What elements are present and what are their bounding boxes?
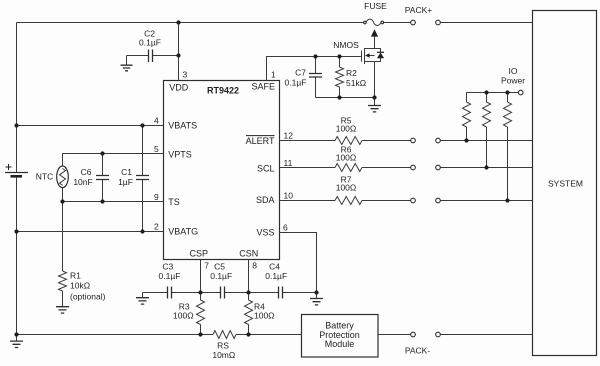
wire top rail PACK+ [17, 22, 533, 24]
wire NMOS source rail [316, 97, 375, 99]
resistor pullup 3 [507, 93, 509, 201]
svg-text:SYSTEM: SYSTEM [548, 178, 583, 188]
svg-text:NMOS: NMOS [333, 40, 359, 50]
svg-text:C6: C6 [81, 167, 92, 177]
svg-text:0.1µF: 0.1µF [285, 78, 307, 88]
svg-text:CSP: CSP [190, 249, 209, 259]
node SCL connector [411, 165, 416, 170]
svg-text:VDD: VDD [169, 82, 189, 92]
resistor R4 [248, 293, 250, 335]
svg-text:10: 10 [284, 190, 294, 200]
wire filter cap row [143, 292, 317, 294]
capacitor C7 [315, 57, 317, 98]
wire IO power rail [467, 92, 519, 94]
svg-text:RS: RS [217, 340, 229, 350]
svg-text:IO: IO [509, 66, 518, 76]
capacitor C1 [142, 126, 144, 232]
capacitor C6 [102, 154, 104, 202]
resistor R7 [335, 197, 362, 205]
svg-text:7: 7 [204, 260, 209, 270]
svg-text:51kΩ: 51kΩ [346, 78, 366, 88]
svg-text:SDA: SDA [256, 195, 275, 205]
svg-text:100Ω: 100Ω [254, 311, 275, 321]
capacitor C3 [168, 287, 172, 299]
svg-text:1: 1 [271, 70, 276, 80]
svg-text:PACK-: PACK- [405, 346, 431, 356]
svg-text:4: 4 [154, 115, 159, 125]
wire CSN pin8 stub [248, 260, 250, 293]
svg-text:VBATS: VBATS [168, 121, 197, 131]
ground battery rail [16, 335, 18, 341]
node ALERT connector [411, 138, 416, 143]
node IO power terminal [518, 90, 523, 95]
svg-text:3: 3 [183, 70, 188, 80]
svg-text:CSN: CSN [239, 249, 258, 259]
svg-text:ALERT: ALERT [246, 136, 275, 146]
node SDA connector [411, 198, 416, 203]
wire VBATS pin4 [17, 125, 164, 127]
svg-text:VPTS: VPTS [168, 149, 192, 159]
svg-text:12: 12 [284, 131, 294, 141]
resistor RS shunt [213, 331, 236, 339]
resistor pullup 2 [486, 93, 488, 168]
svg-text:100Ω: 100Ω [336, 152, 357, 162]
wire SDA pin10 row [280, 200, 533, 202]
svg-text:(optional): (optional) [70, 292, 106, 302]
svg-text:0.1µF: 0.1µF [159, 271, 181, 281]
resistor R6 [335, 164, 362, 172]
ground for R1 [56, 307, 69, 313]
svg-text:100Ω: 100Ω [173, 311, 194, 321]
capacitor C5 [221, 287, 225, 299]
svg-text:C7: C7 [295, 68, 306, 78]
svg-text:Module: Module [325, 339, 355, 349]
wire TS pin9 [63, 201, 164, 203]
svg-text:100Ω: 100Ω [336, 124, 357, 134]
wire VBATG pin2 [17, 231, 164, 233]
svg-text:5: 5 [154, 144, 159, 154]
SYSTEM block [533, 11, 597, 356]
svg-text:0.1µF: 0.1µF [139, 37, 161, 47]
ground for C2 [121, 65, 133, 71]
ground cap row left [136, 298, 149, 304]
battery protection module block [302, 315, 379, 358]
wire ALERT pin12 row [280, 140, 533, 142]
svg-text:SCL: SCL [257, 163, 275, 173]
svg-text:PACK+: PACK+ [405, 5, 433, 15]
svg-text:FUSE: FUSE [364, 1, 387, 11]
svg-text:NTC: NTC [36, 172, 53, 182]
svg-text:11: 11 [284, 158, 293, 168]
svg-text:Battery: Battery [325, 320, 354, 330]
resistor R2 [339, 57, 341, 98]
resistor R5 [335, 137, 362, 145]
svg-text:8: 8 [252, 260, 257, 270]
wire VSS pin6 to ground [280, 233, 317, 293]
transistor Q1 NMOS [362, 36, 381, 97]
resistor pullup 1 [466, 93, 468, 141]
svg-text:C4: C4 [269, 261, 280, 271]
svg-text:6: 6 [283, 222, 288, 232]
svg-text:Power: Power [501, 76, 525, 86]
resistor R1 [62, 202, 64, 307]
svg-text:R1: R1 [70, 270, 81, 280]
thermistor NTC [62, 154, 64, 202]
svg-text:C5: C5 [214, 261, 225, 271]
wire SAFE pin1 to NMOS gate [267, 57, 362, 81]
svg-text:9: 9 [154, 192, 159, 202]
svg-text:SAFE: SAFE [251, 81, 275, 91]
fuse F1 [364, 21, 367, 24]
svg-text:C3: C3 [162, 261, 173, 271]
wire VPTS pin5 [63, 153, 164, 155]
svg-text:10kΩ: 10kΩ [70, 281, 90, 291]
wire SCL pin11 row [280, 167, 533, 169]
svg-text:1µF: 1µF [118, 177, 133, 187]
capacitor C4 [279, 287, 283, 299]
battery cell [5, 172, 28, 174]
op-amp U1 : RT9422 IC body [164, 81, 280, 260]
svg-text:10mΩ: 10mΩ [212, 350, 235, 360]
body diode D1 [377, 51, 384, 53]
svg-text:R2: R2 [346, 68, 357, 78]
wire CSP pin7 stub [200, 260, 202, 293]
resistor R3 [200, 293, 202, 335]
ground for NMOS source [374, 98, 376, 106]
wire VDD pin3 stub [178, 23, 180, 81]
svg-text:100Ω: 100Ω [336, 183, 357, 193]
svg-text:VBATG: VBATG [168, 227, 198, 237]
node PACK+ connector [411, 20, 416, 25]
svg-text:2: 2 [154, 221, 159, 231]
node PACK- connector [411, 332, 416, 337]
svg-text:TS: TS [168, 197, 180, 207]
wire bottom rail [17, 334, 302, 336]
svg-text:10nF: 10nF [73, 177, 92, 187]
ground VSS [316, 293, 318, 299]
svg-text:VSS: VSS [256, 227, 274, 237]
wire left battery rail [16, 23, 18, 335]
svg-text:C1: C1 [121, 167, 132, 177]
capacitor C2 [127, 55, 179, 57]
svg-text:RT9422: RT9422 [207, 85, 239, 95]
svg-text:0.1µF: 0.1µF [265, 271, 287, 281]
svg-text:0.1µF: 0.1µF [210, 271, 232, 281]
wire BPM to PACK- [378, 334, 533, 336]
